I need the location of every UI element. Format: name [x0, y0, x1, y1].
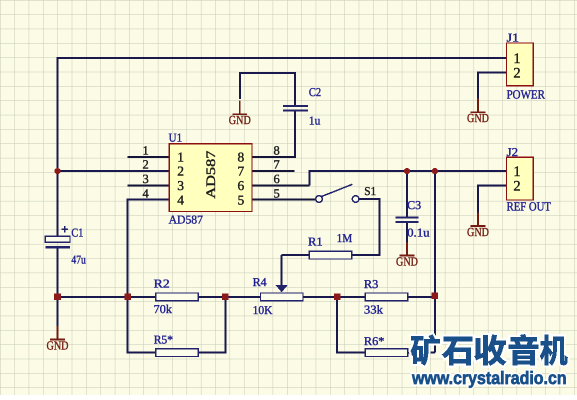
svg-text:10K: 10K — [253, 303, 273, 317]
svg-text:R1: R1 — [308, 235, 323, 249]
wire pin8 stub — [252, 156, 296, 158]
wire pin7 stub — [252, 170, 295, 172]
ground bottom left — [47, 326, 69, 353]
node bus/left rail junction — [54, 294, 61, 301]
wire C3 branch — [406, 171, 408, 217]
svg-text:GND: GND — [467, 225, 489, 239]
svg-text:GND: GND — [229, 113, 251, 127]
wire left vertical rail — [57, 57, 59, 236]
svg-text:J1: J1 — [507, 31, 519, 45]
wire C2 top loop to pin8 — [240, 73, 295, 106]
svg-text:C1: C1 — [71, 225, 83, 239]
potentiometer R4 — [260, 285, 303, 301]
svg-text:AD587: AD587 — [169, 213, 203, 227]
svg-text:70k: 70k — [154, 302, 172, 316]
svg-text:R3: R3 — [364, 277, 379, 291]
svg-text:R2: R2 — [154, 277, 170, 291]
node pin2/left rail junction — [54, 168, 60, 174]
svg-text:POWER: POWER — [507, 87, 546, 101]
node bus/pin4 junction — [124, 294, 131, 301]
U1 pin numbers inside — [177, 149, 244, 207]
svg-text:C3: C3 — [407, 198, 421, 212]
resistor R3 — [365, 293, 408, 301]
svg-text:J2: J2 — [507, 145, 518, 159]
svg-text:U1: U1 — [169, 130, 183, 144]
svg-text:3: 3 — [142, 172, 148, 186]
svg-text:4: 4 — [142, 186, 149, 200]
connector J1 — [507, 43, 534, 86]
ground near J1 — [467, 99, 489, 126]
U1 pin numbers outside right — [273, 143, 279, 200]
svg-text:4: 4 — [177, 192, 184, 207]
ground near J2 — [467, 213, 489, 240]
svg-text:REF OUT: REF OUT — [507, 200, 552, 214]
svg-text:6: 6 — [273, 172, 279, 186]
switch S1 — [316, 184, 359, 202]
svg-text:R5*: R5* — [154, 333, 173, 347]
wire output rail down to R3/R6 right — [434, 171, 436, 353]
ground near C2 — [229, 101, 251, 128]
wire pin4 down to bottom bus — [128, 200, 170, 297]
wire top rail from left rail to J1 pin1 — [57, 57, 507, 59]
capacitor C2 — [283, 106, 308, 110]
svg-text:0.1u: 0.1u — [407, 226, 430, 240]
svg-text:2: 2 — [142, 158, 148, 172]
IC U1 AD587 body — [169, 144, 252, 212]
capacitor C3 — [396, 217, 419, 222]
svg-text:2: 2 — [513, 178, 520, 194]
svg-text:47u: 47u — [71, 253, 85, 267]
svg-text:1: 1 — [142, 143, 148, 157]
svg-text:GND: GND — [467, 111, 489, 125]
resistor R5* — [156, 349, 199, 357]
wire pin5 to switch — [252, 199, 316, 201]
wire R6 parallel branch — [337, 297, 365, 353]
watermark logo text (Chinese) — [411, 335, 567, 366]
ground near C3 — [396, 242, 418, 269]
svg-text:2: 2 — [177, 164, 184, 179]
wire pin3 stub — [128, 184, 170, 186]
wire switch to R1 right end — [352, 199, 380, 255]
svg-text:R4: R4 — [253, 275, 267, 289]
resistor R2 — [156, 293, 199, 301]
svg-text:AD587: AD587 — [203, 150, 218, 199]
wire R1 left end to pot wiper — [282, 254, 310, 256]
node bus/R6 junction — [334, 294, 341, 301]
node output rail junction — [432, 168, 438, 174]
wire R5 parallel branch — [128, 297, 156, 353]
svg-text:33k: 33k — [364, 303, 383, 317]
node bus/output junction — [432, 293, 439, 300]
svg-text:R6*: R6* — [364, 334, 385, 348]
svg-text:7: 7 — [273, 158, 279, 172]
svg-text:5: 5 — [238, 192, 245, 207]
svg-text:S1: S1 — [364, 184, 376, 198]
wire pot wiper stem — [281, 255, 283, 285]
U1 pin numbers outside left — [142, 143, 149, 200]
resistor R1 — [309, 251, 352, 259]
svg-text:1M: 1M — [337, 231, 353, 245]
resistor R6* — [365, 349, 408, 357]
connector J2 — [507, 157, 534, 200]
svg-text:8: 8 — [238, 149, 245, 164]
wire pin1 stub — [128, 156, 170, 158]
wire left rail below C1 to ground — [57, 247, 59, 326]
svg-text:8: 8 — [273, 143, 279, 157]
svg-text:1u: 1u — [309, 113, 320, 127]
node C3 junction on output rail — [404, 168, 410, 174]
wire J1 pin2 to ground — [478, 73, 507, 100]
node bus/R5 junction — [222, 294, 229, 301]
wire J2 pin2 to ground — [478, 185, 507, 213]
svg-text:6: 6 — [238, 178, 245, 193]
wire bottom bus — [58, 296, 156, 298]
wire pin2 to left rail — [58, 170, 170, 172]
svg-text:www.crystalradio.cn: www.crystalradio.cn — [411, 368, 566, 388]
svg-text:C2: C2 — [309, 85, 321, 99]
svg-text:3: 3 — [177, 178, 184, 193]
svg-text:GND: GND — [396, 255, 418, 269]
capacitor C1 (polarized) — [45, 226, 70, 247]
wire pin6 to output rail — [252, 184, 310, 186]
svg-text:2: 2 — [513, 66, 520, 82]
svg-text:GND: GND — [47, 338, 69, 352]
svg-text:5: 5 — [273, 186, 279, 200]
svg-text:1: 1 — [177, 149, 184, 164]
svg-text:7: 7 — [238, 164, 245, 179]
